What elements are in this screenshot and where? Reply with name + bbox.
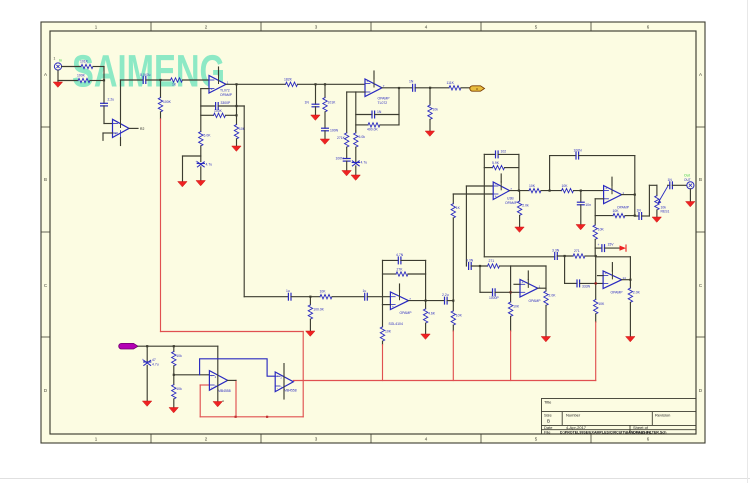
D plus input stub bbox=[514, 283, 520, 285]
svg-text:100N: 100N bbox=[336, 157, 345, 161]
E output riser bbox=[629, 257, 631, 288]
B output vertical rail bbox=[634, 156, 636, 216]
red riser (D) bbox=[510, 331, 512, 381]
resistor 5.0k bbox=[354, 133, 366, 147]
svg-text:+: + bbox=[598, 243, 600, 247]
E node vertical bbox=[595, 256, 597, 300]
branch: polarized cap to ground bbox=[146, 346, 148, 361]
svg-text:100N: 100N bbox=[330, 129, 339, 133]
svg-text:4.6K: 4.6K bbox=[428, 311, 436, 315]
resistor 5.0K bbox=[199, 132, 212, 146]
long vertical to row-3 (from fb cap rail) bbox=[243, 106, 245, 297]
svg-text:TL072: TL072 bbox=[220, 89, 230, 93]
op-amp U2 bbox=[209, 76, 229, 94]
svg-text:4-Apr-2017: 4-Apr-2017 bbox=[566, 425, 587, 430]
red wire left riser bbox=[199, 385, 201, 417]
node dot bbox=[103, 79, 105, 81]
svg-text:10k: 10k bbox=[433, 108, 439, 112]
svg-text:+: + bbox=[605, 272, 607, 276]
C fb cap row bbox=[383, 259, 399, 261]
svg-text:MB4558: MB4558 bbox=[218, 389, 231, 393]
shunt cap 10n to ground bbox=[580, 191, 582, 203]
shunt branch 1: cap 1N to ground bbox=[315, 84, 317, 104]
tee to left branch bbox=[183, 155, 201, 157]
F power rail through triangle bbox=[217, 346, 219, 401]
svg-text:5.9K: 5.9K bbox=[492, 161, 500, 165]
resistor R3 1K bbox=[171, 78, 183, 87]
wire node down to C2 bbox=[103, 80, 105, 103]
capacitor C1 0.047u bbox=[140, 73, 150, 83]
polarized cap 4.7u (U3 branch) bbox=[352, 161, 367, 166]
shunt branch 2: resistor 101K + cap to ground bbox=[324, 84, 326, 97]
capacitor 4.7N (C fb) bbox=[396, 253, 404, 264]
A labels U3B OPAMP bbox=[505, 197, 518, 206]
svg-text:1N: 1N bbox=[409, 80, 414, 84]
svg-text:100K: 100K bbox=[77, 74, 86, 78]
red riser (C plus) bbox=[382, 345, 384, 381]
ground (4.7u U3) bbox=[351, 175, 360, 180]
svg-text:1N: 1N bbox=[305, 101, 310, 105]
long vertical from node X up to op-amp A plus input bbox=[452, 194, 454, 204]
resistor (A plus chain) bbox=[451, 204, 461, 218]
wire C2 to U1 minus bbox=[103, 106, 105, 124]
capacitor 1N (output coupling) bbox=[409, 80, 415, 92]
wire corner to C1 bbox=[121, 79, 144, 81]
decoupling row: 47u cap + power arrow bbox=[595, 247, 602, 249]
svg-text:Title: Title bbox=[544, 400, 552, 405]
svg-text:B: B bbox=[44, 177, 47, 182]
svg-text:+: + bbox=[211, 88, 213, 92]
resistor 2.0K (E out) bbox=[628, 288, 640, 302]
svg-text:10K: 10K bbox=[598, 228, 605, 232]
svg-text:OPAMP: OPAMP bbox=[400, 311, 413, 315]
svg-text:2.0K: 2.0K bbox=[633, 291, 641, 295]
U3 fb cap row bbox=[356, 114, 372, 116]
svg-text:1K: 1K bbox=[456, 206, 461, 210]
ground (U2 fb) bbox=[232, 146, 241, 151]
op-amp A plus input wire bbox=[453, 193, 493, 195]
ground (4.7u) bbox=[196, 181, 205, 186]
svg-text:271: 271 bbox=[489, 259, 495, 263]
U2 fb resistor row wire bbox=[201, 114, 214, 116]
red riser (E, right end of bus) bbox=[595, 322, 597, 381]
comparator F bbox=[209, 371, 227, 391]
A fb resistor row bbox=[484, 167, 492, 169]
op-amp A bbox=[493, 182, 512, 200]
resistor R2 100K bbox=[77, 74, 90, 83]
U3 fb right rail bbox=[398, 88, 400, 125]
capacitor 3.3N (E input) bbox=[552, 249, 560, 260]
svg-text:5.0k: 5.0k bbox=[359, 135, 366, 139]
U1 plus input wire bbox=[103, 132, 113, 134]
connector OUT (circle) bbox=[687, 182, 694, 189]
E lower row cap 333N bbox=[565, 282, 577, 284]
ground (47u) bbox=[143, 401, 152, 406]
svg-text:OPAMP: OPAMP bbox=[611, 290, 624, 294]
wire C1 to node2 bbox=[146, 79, 171, 81]
svg-text:+: + bbox=[605, 187, 607, 191]
wire cap to ground bbox=[200, 167, 202, 181]
wire to U3 bbox=[298, 83, 366, 85]
svg-text:333N: 333N bbox=[582, 285, 591, 289]
svg-text:10K: 10K bbox=[613, 209, 620, 213]
U3 output wire bbox=[382, 87, 413, 89]
capacitor 1N bbox=[305, 101, 319, 107]
svg-text:File: File bbox=[544, 429, 551, 434]
svg-text:2.0k: 2.0k bbox=[522, 204, 529, 208]
capacitor 100N (B fb) bbox=[574, 149, 583, 160]
svg-text:+: + bbox=[277, 375, 279, 379]
svg-text:U3B: U3B bbox=[507, 197, 514, 201]
capacitor 1N (tap from B output rail) bbox=[635, 215, 639, 217]
svg-text:OPAMP: OPAMP bbox=[220, 93, 233, 97]
zone labels bbox=[44, 25, 703, 442]
U1 power wire from top rail bbox=[120, 80, 122, 119]
capacitor 1N (U3 fb) bbox=[372, 110, 382, 118]
U1 output wire bbox=[129, 127, 138, 129]
svg-text:3.3N: 3.3N bbox=[552, 249, 560, 253]
svg-text:10K: 10K bbox=[385, 329, 392, 333]
svg-text:2.0K: 2.0K bbox=[549, 294, 557, 298]
svg-text:10K: 10K bbox=[562, 184, 569, 188]
C power stub bbox=[399, 284, 401, 292]
junction red (box bottom) bbox=[235, 416, 237, 418]
U2 power stub bbox=[218, 67, 220, 76]
inner border bbox=[50, 31, 696, 434]
C fb left rail bbox=[382, 260, 384, 304]
U2 plus input wire bbox=[201, 88, 209, 90]
wire J1 to R1 bbox=[62, 66, 81, 68]
zone dividers top/bottom bbox=[41, 22, 705, 443]
svg-text:271: 271 bbox=[574, 249, 580, 253]
wiper wire to out cap bbox=[668, 184, 670, 186]
ground (1N) bbox=[311, 115, 320, 120]
wire fb resistor to right rail bbox=[226, 114, 237, 116]
potentiometer 10k RES1 bbox=[655, 185, 670, 213]
svg-text:400.0K: 400.0K bbox=[367, 128, 378, 132]
vertical resistor 10K (to E input node) bbox=[594, 216, 596, 225]
ground (271K branch) bbox=[342, 171, 351, 176]
svg-text:Out: Out bbox=[684, 174, 690, 178]
svg-text:4.7u: 4.7u bbox=[152, 363, 159, 367]
resistor 111K (to port) bbox=[447, 81, 462, 90]
U3 fb left rail bbox=[355, 92, 357, 131]
resistor 271 (D series) bbox=[488, 259, 500, 268]
magenta power port bbox=[119, 343, 138, 349]
blue wire F input to G input bbox=[200, 359, 276, 376]
B power stub bbox=[611, 177, 613, 185]
resistor R1 101K bbox=[80, 60, 93, 69]
capacitor C2 2.2u bbox=[101, 98, 115, 106]
svg-text:OPAMP: OPAMP bbox=[529, 299, 542, 303]
B lower fb row bbox=[595, 215, 613, 217]
ground (101K branch) bbox=[320, 139, 329, 144]
capacitor 100N (shunt) bbox=[322, 128, 339, 132]
G output red wire / red bus bbox=[293, 380, 595, 382]
svg-text:4.7N: 4.7N bbox=[396, 253, 404, 257]
svg-text:182K: 182K bbox=[284, 77, 293, 81]
red wire bottom of loop bbox=[200, 416, 303, 418]
wire R1 to node bbox=[93, 66, 104, 68]
resistor 10K (second) bbox=[562, 184, 574, 193]
svg-text:OPAMP: OPAMP bbox=[378, 97, 391, 101]
op-amp B bbox=[604, 186, 625, 204]
svg-text:1N: 1N bbox=[377, 110, 382, 114]
resistor 271K bbox=[337, 133, 349, 147]
svg-text:1N: 1N bbox=[668, 178, 673, 182]
svg-text:10k: 10k bbox=[176, 354, 182, 358]
svg-text:10K: 10K bbox=[598, 302, 605, 306]
ground (4.6K) bbox=[421, 334, 430, 339]
node X down resistor 10K to red bus bbox=[452, 302, 454, 311]
resistor 10K (C plus to red) bbox=[380, 327, 391, 341]
svg-text:+: + bbox=[115, 132, 117, 136]
svg-text:5.0K: 5.0K bbox=[204, 134, 212, 138]
U2 labels TL072 OPAMP bbox=[220, 89, 233, 98]
G power rail through triangle bbox=[283, 364, 285, 399]
svg-text:2.2u: 2.2u bbox=[442, 293, 449, 297]
wire from port bbox=[138, 345, 218, 347]
input wire from long vertical bbox=[244, 296, 288, 298]
resistor 271 (E series) bbox=[573, 249, 585, 258]
resistor 10K (E to red bus) bbox=[594, 300, 605, 314]
A output wire bbox=[510, 190, 530, 192]
resistor 100K (feedback) bbox=[214, 109, 226, 118]
svg-text:10K: 10K bbox=[529, 184, 536, 188]
svg-text:+: + bbox=[367, 80, 369, 84]
ground (D out) bbox=[541, 337, 550, 342]
resistor 10K (A to B first) bbox=[529, 184, 541, 193]
E lower-left rail bbox=[564, 256, 566, 283]
svg-text:2.2u: 2.2u bbox=[108, 98, 115, 102]
ground (10n) bbox=[576, 225, 585, 230]
A output shunt resistor 2.0k bbox=[519, 191, 521, 201]
svg-text:15V: 15V bbox=[608, 243, 615, 247]
svg-text:SGL4104: SGL4104 bbox=[389, 322, 403, 326]
D power stub bbox=[527, 271, 529, 280]
svg-text:Drawn By:: Drawn By: bbox=[633, 429, 651, 434]
op-amp A minus input wire bbox=[466, 185, 493, 187]
red riser (node X) bbox=[452, 331, 454, 381]
ground (100.0K, red) bbox=[306, 331, 315, 336]
U2 fb cap row wire bbox=[201, 105, 216, 107]
resistor 10K below fb bbox=[234, 125, 245, 139]
resistor 27K (C fb) bbox=[396, 268, 408, 277]
svg-text:101K: 101K bbox=[328, 101, 337, 105]
svg-text:TL072: TL072 bbox=[378, 101, 388, 105]
svg-text:271K: 271K bbox=[337, 136, 346, 140]
capacitor 3.3N (D input) bbox=[466, 259, 474, 270]
svg-text:47: 47 bbox=[152, 358, 156, 362]
svg-text:10K: 10K bbox=[513, 305, 520, 309]
resistor 400.0K (U3 fb) bbox=[367, 123, 380, 132]
D output wire bbox=[538, 287, 546, 289]
capacitor 100N (271K branch) bbox=[336, 157, 351, 162]
wire R2 to node bbox=[90, 80, 104, 82]
right rail from output down bbox=[236, 84, 238, 124]
rail from A fb to E input row bbox=[484, 256, 554, 258]
ground (left branch) bbox=[178, 182, 187, 187]
resistor 5.9K (A fb) bbox=[492, 161, 505, 170]
shunt resistor 10k to ground bbox=[429, 88, 431, 105]
svg-text:OPAMP: OPAMP bbox=[617, 206, 630, 210]
F output wire bbox=[228, 379, 236, 381]
svg-text:10n: 10n bbox=[585, 203, 591, 207]
U3 fb resistor row bbox=[356, 124, 368, 126]
divider branch: resistor 10k upper bbox=[173, 346, 175, 351]
resistor 2.0K (D out) bbox=[544, 291, 556, 305]
U3 minus input wire bbox=[356, 91, 365, 93]
svg-text:100N: 100N bbox=[574, 149, 583, 153]
red wire long vertical bbox=[160, 119, 162, 332]
svg-text:3300P: 3300P bbox=[221, 101, 232, 105]
C labels OPAMP SGL4104 bbox=[389, 311, 413, 326]
svg-text:Number: Number bbox=[566, 413, 581, 418]
svg-text:In: In bbox=[59, 59, 62, 63]
red wire horizontal bbox=[161, 331, 304, 333]
U1 lower power stub bbox=[120, 138, 122, 146]
D top row extension to output riser bbox=[511, 265, 546, 267]
op-amp U3 bbox=[365, 79, 385, 97]
node dot bbox=[159, 79, 161, 81]
op-amp G bbox=[275, 372, 293, 392]
C output wire bbox=[409, 300, 445, 302]
resistor 10K (D to red bus) bbox=[508, 302, 519, 316]
svg-text:Size: Size bbox=[544, 413, 553, 418]
svg-text:A: A bbox=[699, 72, 702, 77]
svg-text:Revision: Revision bbox=[655, 413, 670, 418]
capacitor 333N bbox=[577, 280, 591, 289]
resistor 182K bbox=[284, 77, 298, 86]
svg-text:111K: 111K bbox=[447, 81, 455, 85]
resistor 101K (shunt) bbox=[323, 98, 336, 112]
svg-text:100.0K: 100.0K bbox=[313, 308, 324, 312]
capacitor 3300P bbox=[216, 101, 231, 109]
capacitor 1000P bbox=[489, 289, 500, 300]
wire to ground bbox=[236, 139, 238, 146]
svg-text:+: + bbox=[142, 358, 144, 362]
wire node down bbox=[103, 67, 105, 81]
svg-text:100K: 100K bbox=[214, 109, 223, 113]
riser to output row bbox=[648, 185, 650, 216]
C fb right rail bbox=[425, 260, 427, 300]
U2 feedback left rail bbox=[200, 89, 202, 132]
capacitor 102 (A fb) bbox=[496, 150, 507, 158]
svg-text:102: 102 bbox=[501, 150, 507, 154]
svg-text:+: + bbox=[211, 374, 213, 378]
op-amp E bbox=[603, 271, 626, 289]
C plus chain down bbox=[382, 305, 384, 327]
faint browser frame lines bbox=[0, 478, 750, 480]
svg-text:1: 1 bbox=[54, 57, 56, 61]
svg-text:1u: 1u bbox=[363, 289, 367, 293]
svg-text:4.7u: 4.7u bbox=[361, 161, 368, 165]
A fb right rail bbox=[518, 154, 520, 190]
E power stub bbox=[611, 263, 613, 271]
resistor 10K (B lower fb) bbox=[613, 209, 626, 218]
ground (2.0k A) bbox=[515, 227, 524, 232]
svg-text:MB4558: MB4558 bbox=[284, 388, 297, 392]
svg-text:1N: 1N bbox=[637, 209, 642, 213]
svg-text:10K: 10K bbox=[320, 290, 327, 294]
capacitor 1N (output) bbox=[668, 178, 673, 189]
wire J1 down bbox=[57, 70, 59, 80]
svg-text:B: B bbox=[699, 177, 702, 182]
shunt resistor 100.0K bbox=[309, 297, 311, 305]
U2 output wire bbox=[226, 83, 286, 85]
E plus input stub bbox=[598, 275, 604, 277]
schematic sheet bbox=[41, 22, 705, 443]
ground (OUT) bbox=[689, 189, 691, 202]
resistor 10K (C series) bbox=[320, 290, 333, 299]
A fb left rail bbox=[483, 154, 485, 256]
resistor 10k lower bbox=[172, 385, 182, 399]
red wire right side down bbox=[302, 332, 304, 417]
resistor 100K (to red) bbox=[158, 98, 171, 112]
connector J1 (input) bbox=[54, 57, 62, 71]
U3 power stub bbox=[373, 71, 375, 79]
svg-text:+: + bbox=[522, 280, 524, 284]
svg-text:27K: 27K bbox=[397, 268, 404, 272]
top fb rail of B bbox=[550, 155, 576, 157]
svg-text:1u: 1u bbox=[286, 289, 290, 293]
svg-text:3.3N: 3.3N bbox=[466, 259, 474, 263]
svg-text:+: + bbox=[196, 160, 198, 164]
title block bbox=[542, 399, 697, 435]
vertical to lower row bbox=[479, 266, 481, 292]
svg-text:OUT: OUT bbox=[684, 178, 691, 182]
red long wire: node2 down to bottom-left loop bbox=[160, 80, 162, 98]
svg-text:4.7u: 4.7u bbox=[206, 163, 213, 167]
svg-text:A: A bbox=[44, 72, 47, 77]
red wire into F minus input bbox=[200, 384, 209, 386]
wire to R2 bbox=[58, 80, 78, 82]
svg-text:R2: R2 bbox=[140, 127, 144, 131]
U3 labels OPAMP TL072 bbox=[378, 97, 391, 106]
D lower row with cap 1000P bbox=[480, 291, 493, 293]
svg-text:1K: 1K bbox=[172, 83, 177, 87]
wire cap to right rail bbox=[218, 105, 244, 107]
ground (10k out) bbox=[425, 131, 434, 136]
svg-text:10K: 10K bbox=[456, 313, 463, 317]
riser to top fb rail bbox=[549, 156, 551, 191]
ground (divider) bbox=[169, 408, 178, 413]
ground (E out) bbox=[626, 337, 635, 342]
A fb cap row bbox=[484, 153, 495, 155]
svg-text:+: + bbox=[392, 305, 394, 309]
svg-text:101K: 101K bbox=[80, 60, 89, 64]
ground (pot) bbox=[652, 217, 661, 222]
svg-text:100K: 100K bbox=[163, 100, 172, 104]
red stub from comparator output bbox=[235, 380, 237, 416]
C output shunt resistor 4.6K bbox=[425, 301, 427, 309]
svg-text:1000P: 1000P bbox=[489, 296, 500, 300]
svg-text:0.047u: 0.047u bbox=[140, 73, 150, 77]
op-amp U1 bbox=[113, 119, 130, 137]
port (yellow oval) bbox=[470, 86, 485, 91]
wire minus node left bbox=[347, 91, 356, 93]
5.0k branch bbox=[355, 131, 357, 133]
ground (input) bbox=[53, 81, 62, 88]
D node vertical bbox=[510, 266, 512, 302]
B bottom input wire bbox=[595, 198, 603, 200]
wire divider to comparator F plus input bbox=[174, 374, 210, 376]
op-amp C bbox=[390, 292, 411, 310]
E fb top rail bbox=[597, 256, 631, 258]
svg-text:o: o bbox=[476, 87, 478, 91]
svg-text:10k: 10k bbox=[176, 387, 182, 391]
polarized cap 4.7u bbox=[196, 160, 213, 167]
